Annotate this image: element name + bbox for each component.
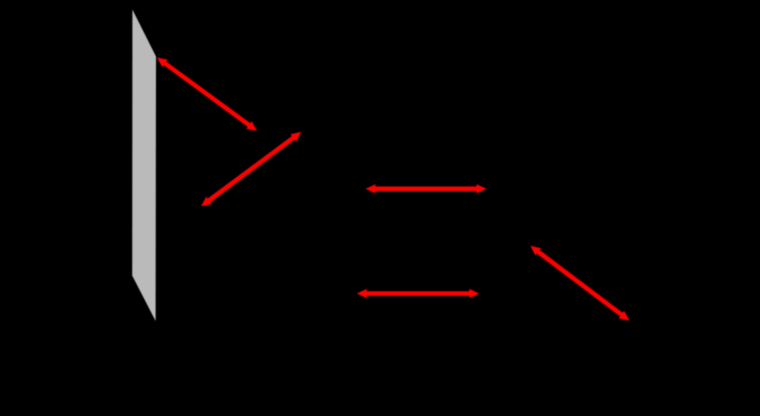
arrow 4 (horizontal lower)	[357, 289, 480, 298]
arrow 2 (node X1 area to lower-left node)	[201, 132, 301, 206]
arrow 1 (mirror top to node X1)	[157, 58, 257, 131]
arrow 5 (diagonal lower-right)	[530, 246, 629, 321]
arrow 3 (horizontal upper)	[366, 184, 487, 193]
mirror (gray tapered parallelogram)	[132, 10, 156, 322]
